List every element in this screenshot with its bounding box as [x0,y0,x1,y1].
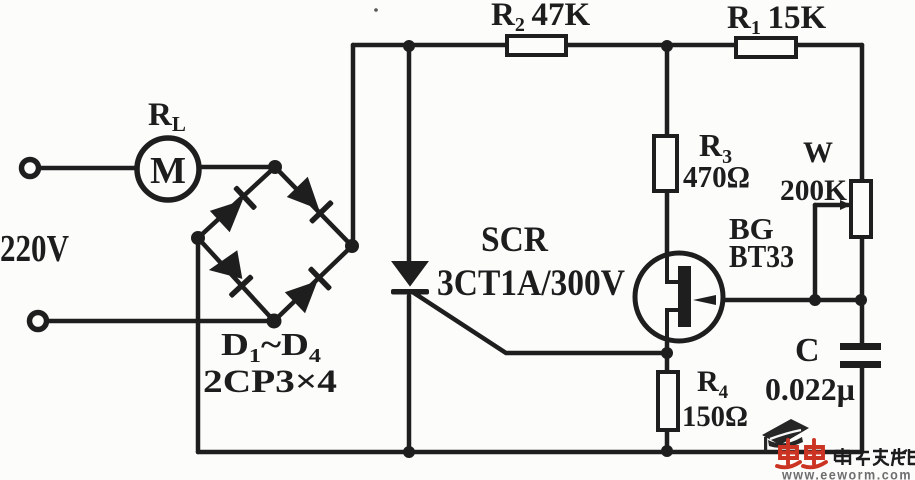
motor M [137,138,199,200]
node bridge bottom [267,314,282,329]
node gate / base1 / R4 [661,347,673,359]
node top rail / SCR [403,40,415,52]
svg-text:SCR: SCR [481,219,549,259]
wire W wiper horizontal [815,203,848,208]
node bridge right [345,239,359,253]
svg-text:W: W [803,136,833,169]
svg-text:BT33: BT33 [729,238,794,274]
wire bridge left node down [196,238,201,452]
potentiometer W [851,181,871,237]
resistor R3 [654,136,677,191]
node wiper / emitter [809,294,821,306]
wire W wiper vertical [813,205,818,300]
wire node to R4 top [665,353,670,372]
wire SCR branch vertical lower [407,296,412,452]
transistor BG BT33 [635,253,723,341]
wire emitter node line [815,298,862,303]
wire terminal1 to motor [40,166,136,171]
wire bottom rail [198,450,862,455]
terminal lower [30,313,47,330]
wire bridge arm bottom-left [198,238,274,321]
wire BT33 bottom to node [665,342,670,353]
diode D3 bottom-left [209,252,241,282]
diode D3 cathode bar [228,274,254,298]
svg-text:www.eeworm.com: www.eeworm.com [781,468,912,480]
wire node to C top [860,299,865,343]
watermark logo cap [762,419,809,451]
wire bridge arm top-left [198,167,275,238]
terminal upper [22,160,39,177]
svg-text:200K: 200K [780,174,848,207]
watermark chongchong red characters [777,440,826,467]
SCR thyristor [391,262,429,295]
wire BT33 emitter to node [692,298,815,303]
svg-text:3CT1A/300V: 3CT1A/300V [437,263,625,304]
resistor R4 [658,372,678,430]
node top rail / R3 [661,40,673,52]
svg-text:2CP3×4: 2CP3×4 [203,364,337,400]
wire bridge arm bottom-right [274,246,352,321]
node W bottom / C [855,294,867,306]
wire SCR branch vertical upper [407,45,412,263]
svg-text:470Ω: 470Ω [683,159,750,194]
svg-text:220V: 220V [0,228,69,270]
svg-text:150Ω: 150Ω [682,400,748,433]
diode D1 top-left [210,185,257,232]
svg-text:R1 15K: R1 15K [727,0,826,39]
node bottom rail / SCR [403,446,415,458]
svg-text:R2 47K: R2 47K [491,0,590,36]
capacitor C [840,343,881,368]
wire top rail [353,43,862,48]
wire R4 bottom to rail [665,430,670,452]
svg-text:D1~D4: D1~D4 [221,326,321,367]
bridge rectifier arms D1-D4 [198,167,352,321]
svg-text:0.022µ: 0.022µ [765,371,855,407]
wire left vertical from top rail to bridge right node [351,45,356,246]
node bridge top [268,160,282,174]
node bottom rail / R4 [661,445,673,457]
wire motor to bridge top node [198,165,275,170]
svg-text:M: M [150,150,186,192]
watermark black site name glyphs [835,448,915,466]
node bridge left [191,231,205,245]
diode D2 top-right [287,177,334,224]
wire C bottom to rail [860,368,865,452]
diode D4 bottom-right [285,266,332,313]
wire SCR gate to node [414,293,667,353]
wire R3 to BT33 top [665,191,670,253]
scan speck [374,8,378,12]
wire R3 branch top [665,46,670,136]
svg-text:C: C [795,332,820,369]
resistor R1 [736,38,796,57]
resistor R2 [507,36,566,55]
wire bridge arm top-right [275,167,352,246]
wire W bottom to node [860,237,865,299]
wire terminal2 to bridge bottom node [48,319,274,324]
wire right vertical top to W [860,45,865,181]
